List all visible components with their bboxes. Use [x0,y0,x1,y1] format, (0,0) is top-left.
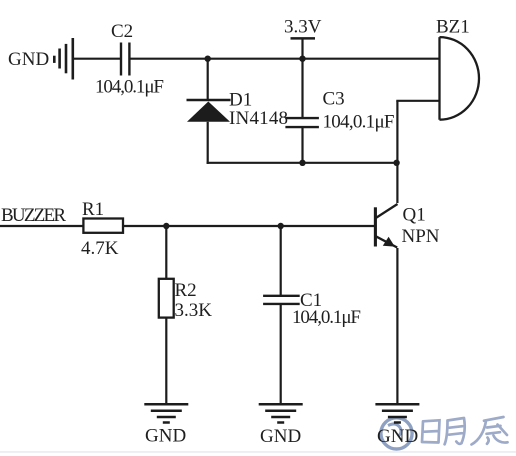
wire: R2 down to ground [165,318,167,405]
node junction dot (R2 / base wire) [163,223,169,229]
watermark character chen [472,417,508,445]
ground (earth) symbol left of C2 [54,38,73,80]
power 3.3V terminal bar [291,37,316,40]
transistor Q1 base bar [374,207,377,246]
node junction dot (C3 / lower rail) [299,160,305,166]
transistor Q1 emitter diagonal [376,236,397,247]
svg-text:104,0.1μF: 104,0.1μF [292,307,361,328]
svg-text:C2: C2 [111,21,133,42]
watermark logo circle [381,418,412,449]
capacitor C2 [121,43,129,76]
svg-text:BUZZER: BUZZER [1,205,66,226]
wire: junction down to C1 [280,226,282,296]
svg-text:R1: R1 [82,199,104,220]
svg-text:GND: GND [8,49,49,70]
node junction dot (C1 / base wire) [278,223,284,229]
svg-text:104,0.1μF: 104,0.1μF [323,112,395,133]
svg-text:C3: C3 [323,89,345,110]
svg-text:IN4148: IN4148 [229,108,288,129]
wire: BUZZER input to R1 [0,225,83,227]
wire: top rail down to D1 cathode [207,59,209,100]
wire: C1 down to ground [280,304,282,404]
wire: left ground to C2 [73,58,121,60]
svg-text:BZ1: BZ1 [436,17,470,38]
svg-text:GND: GND [260,426,301,447]
wire: emitter down to ground [396,248,398,404]
ground symbol G2 (below C1) [259,404,303,422]
capacitor C3 plates [285,118,319,127]
svg-text:4.7K: 4.7K [81,238,119,259]
diode D1 cathode bar [187,99,231,102]
svg-text:R2: R2 [175,280,197,301]
wire: junction down to R2 [165,226,167,279]
buzzer BZ1 body [440,37,480,120]
wire: buzzer lower lead [396,100,440,102]
capacitor C3 bottom lead [301,127,303,163]
svg-text:104,0.1μF: 104,0.1μF [95,77,164,98]
transistor Q1 emitter arrow [383,237,395,247]
wire: 3.3V bar down to top rail [301,38,303,58]
svg-text:GND: GND [145,426,186,447]
bottom faint separator line [0,451,516,452]
svg-text:Q1: Q1 [403,205,426,226]
capacitor C1 plates [263,296,300,304]
node junction dot (D1 / top rail) [205,56,211,62]
capacitor C3 top lead [301,59,303,118]
diode D1 triangle [187,102,230,122]
transistor Q1 collector diagonal [376,204,398,218]
wire: C2 to buzzer (top rail) [129,58,440,60]
node junction dot (3.3V / top rail) [299,56,305,62]
resistor R1 [83,219,123,233]
wire: R1 to transistor base [123,225,375,227]
svg-text:3.3K: 3.3K [175,300,213,321]
wire: collector vertical (buzzer corner to transistor) [396,101,398,203]
ground symbol G3 (below Q1 emitter) [375,404,419,422]
watermark character yue [445,418,465,444]
wire: lower rail (D1 to collector line) [207,162,398,164]
ground symbol G1 (below R2) [144,404,188,422]
resistor R2 [159,279,174,318]
node junction dot (lower rail / collector line) [393,160,399,166]
svg-text:GND: GND [377,426,418,447]
svg-text:3.3V: 3.3V [284,17,322,38]
watermark character ri [422,420,440,442]
wire: D1 anode down to lower rail [207,122,209,164]
svg-text:NPN: NPN [402,226,440,247]
